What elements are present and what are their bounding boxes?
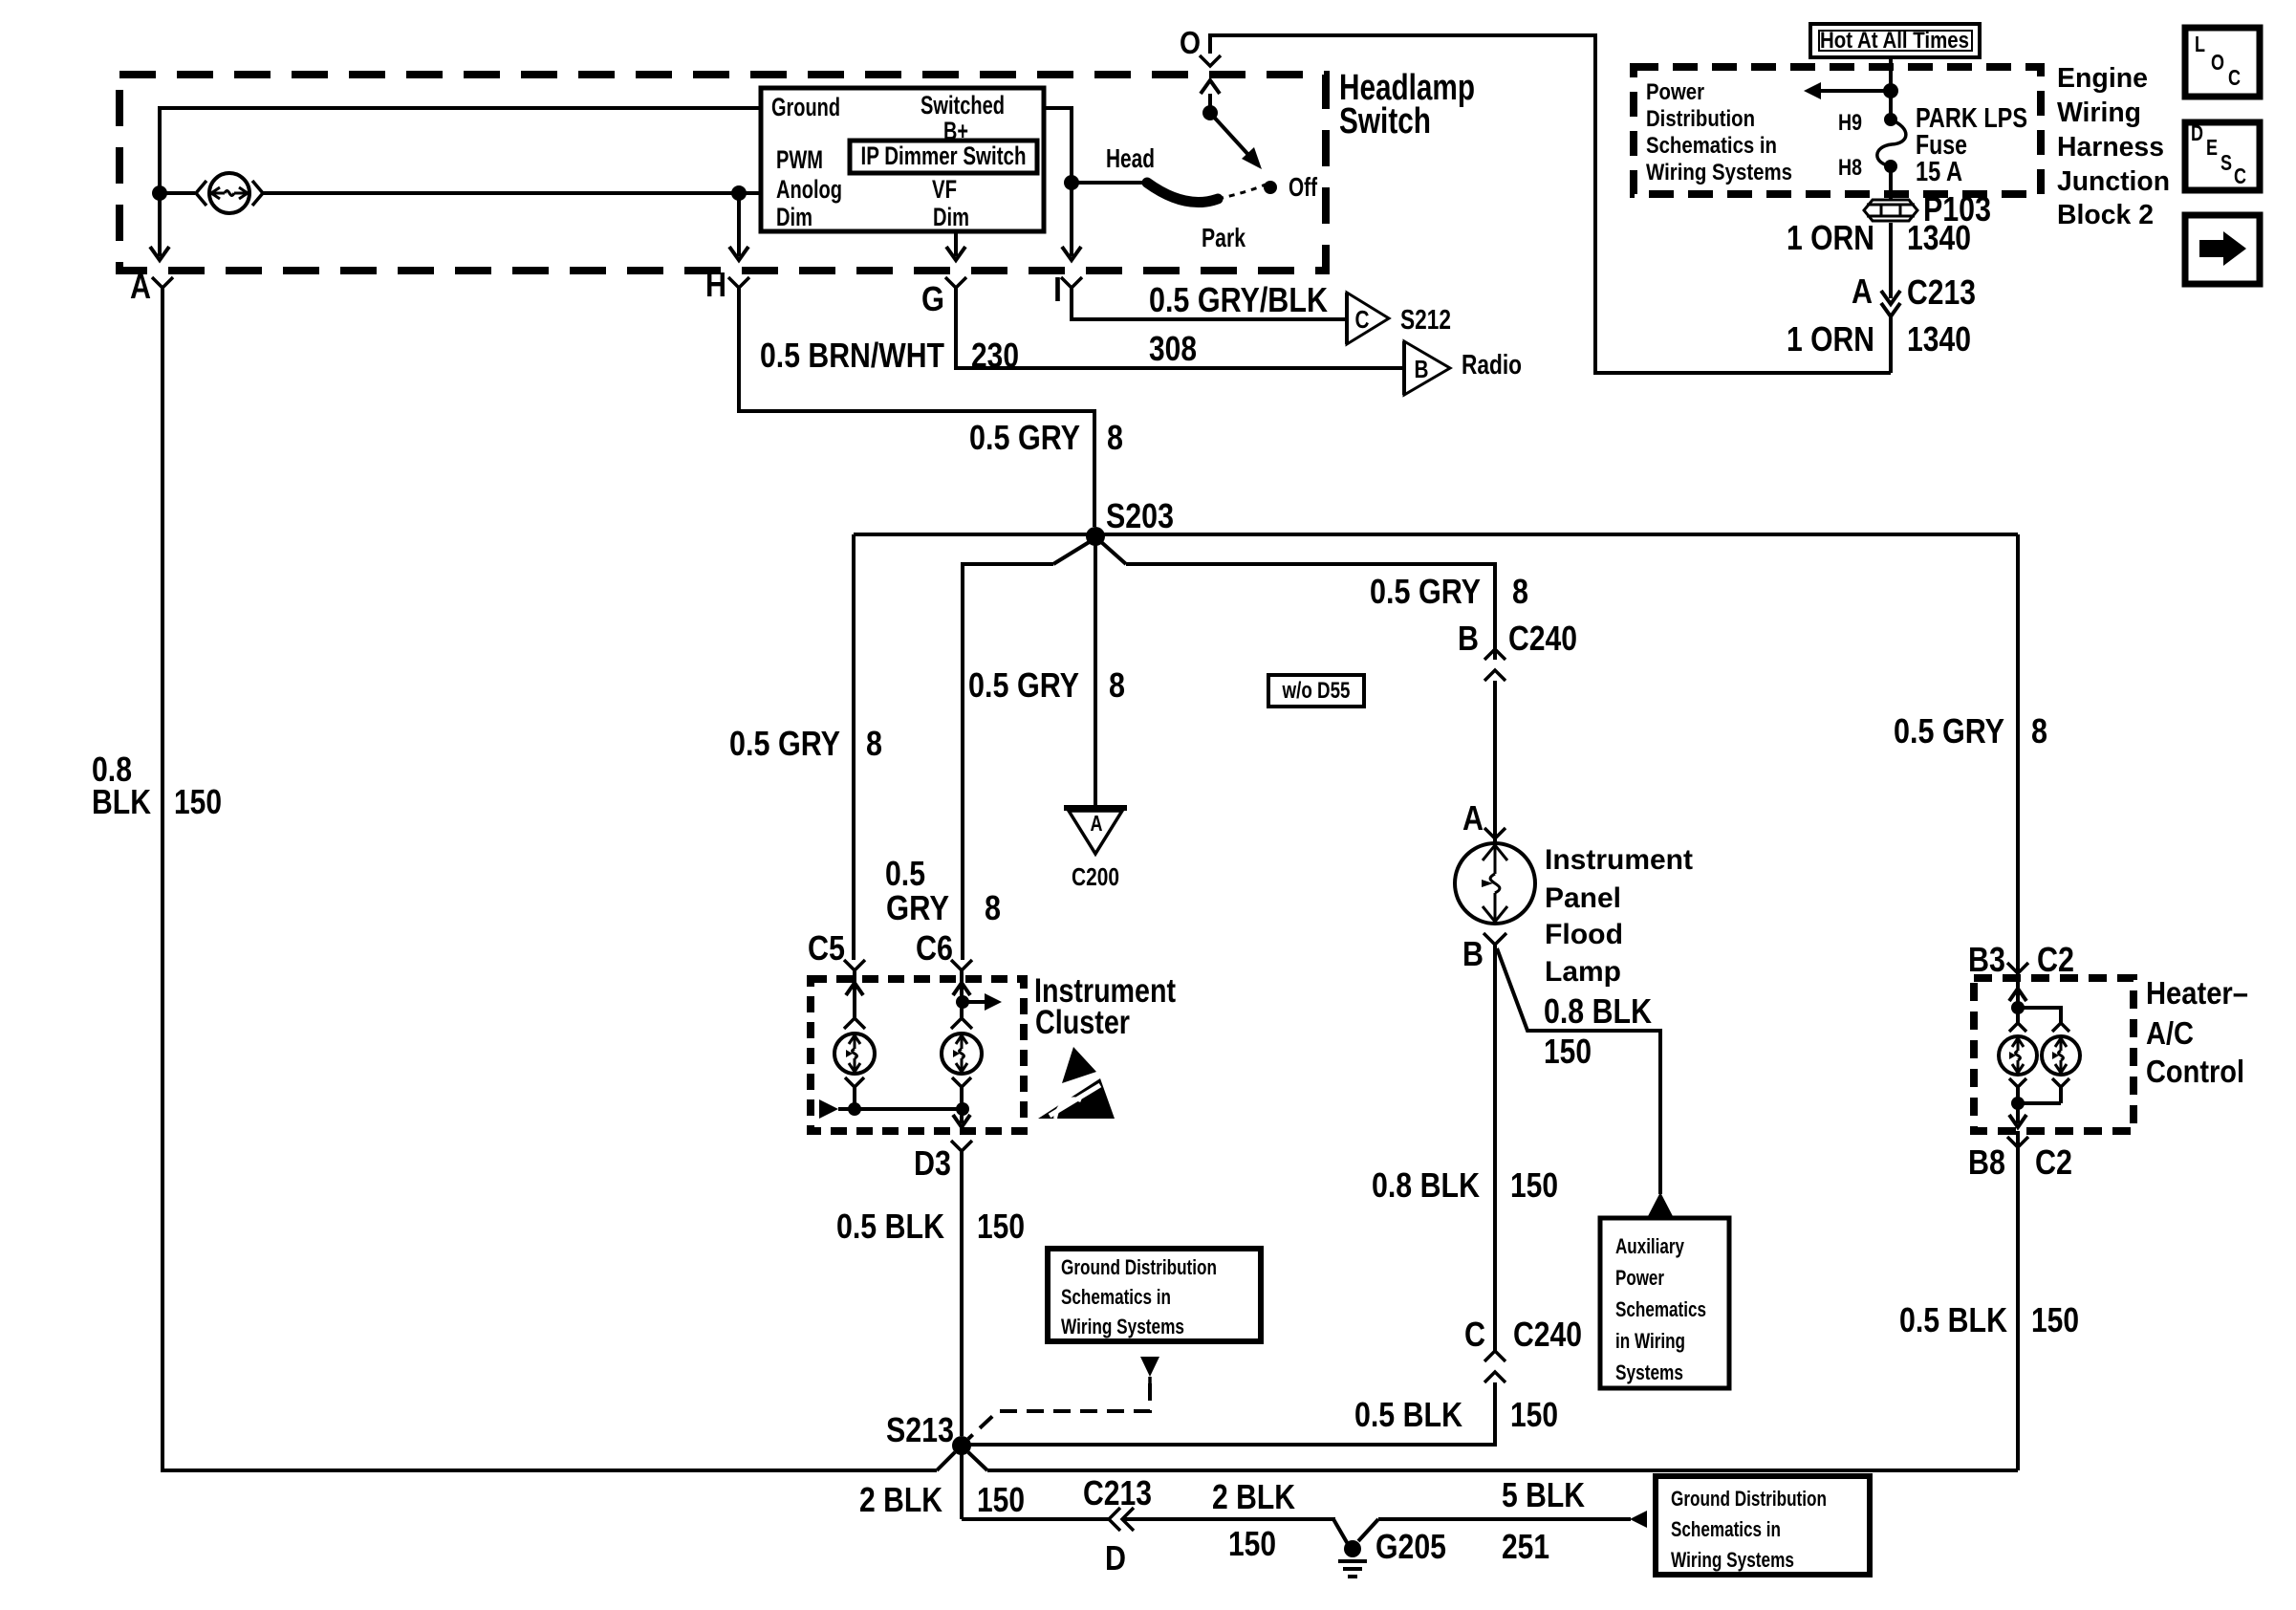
- svg-text:0.8 BLK: 0.8 BLK: [1544, 991, 1652, 1031]
- connector chevron O: [1200, 55, 1221, 66]
- svg-text:IP Dimmer Switch: IP Dimmer Switch: [861, 141, 1027, 170]
- svg-text:A/C: A/C: [2146, 1015, 2194, 1051]
- svg-text:C213: C213: [1083, 1473, 1152, 1512]
- wire below heater right lamp: [2018, 1101, 2061, 1105]
- wire to dimmer lamp left: [160, 191, 195, 195]
- node dot bus left: [848, 1102, 861, 1116]
- ground distribution schematics box (middle): [1048, 1249, 1261, 1341]
- wire border to pivot: [1208, 94, 1212, 113]
- wire heater branch right: [2018, 1008, 2061, 1023]
- svg-text:Radio: Radio: [1462, 350, 1522, 381]
- svg-text:I: I: [1053, 270, 1062, 309]
- svg-text:150: 150: [174, 782, 222, 821]
- DESC box: [2185, 122, 2260, 190]
- svg-text:Dim: Dim: [776, 203, 812, 231]
- wire C5 vertical: [852, 534, 856, 960]
- wire flood B down to C C240: [1493, 945, 1497, 1351]
- svg-text:230: 230: [971, 336, 1019, 375]
- svg-text:Ground Distribution: Ground Distribution: [1671, 1487, 1827, 1511]
- wire diag to G205: [1333, 1519, 1348, 1544]
- wire below heater left lamp: [2016, 1103, 2020, 1123]
- wire G205 diag up: [1358, 1519, 1378, 1541]
- arrow up inside border (O): [1201, 80, 1220, 94]
- connector bracket above left lamp: [844, 1018, 865, 1029]
- svg-text:A: A: [1462, 798, 1484, 838]
- svg-text:Junction: Junction: [2057, 166, 2170, 197]
- svg-text:308: 308: [1149, 329, 1197, 368]
- svg-text:8: 8: [866, 724, 882, 763]
- node dot C6 branch: [956, 995, 969, 1009]
- svg-text:Control: Control: [2146, 1054, 2244, 1089]
- connector bracket right of lamp: [252, 181, 263, 206]
- connector A chevron flood: [1484, 828, 1505, 838]
- ground G205 dot: [1344, 1540, 1361, 1557]
- svg-text:Schematics: Schematics: [1615, 1297, 1706, 1321]
- arrow up inside box (C5): [846, 983, 863, 995]
- wire S213 bottom to C213: [962, 1517, 1109, 1521]
- svg-text:150: 150: [977, 1480, 1025, 1519]
- svg-text:Power: Power: [1646, 79, 1704, 105]
- svg-text:C: C: [1355, 305, 1370, 334]
- wire S213 right to heater: [987, 1469, 2018, 1472]
- wire C240 C to S213: [969, 1382, 1495, 1445]
- svg-text:150: 150: [1228, 1524, 1276, 1563]
- svg-text:L: L: [2195, 32, 2205, 56]
- svg-text:15 A: 15 A: [1916, 157, 1962, 187]
- svg-text:0.5 BRN/WHT: 0.5 BRN/WHT: [760, 336, 944, 375]
- wire C213 down to corner: [1889, 315, 1893, 373]
- connector bracket below right lamp: [952, 1077, 971, 1087]
- svg-text:Systems: Systems: [1615, 1360, 1683, 1384]
- svg-text:150: 150: [1544, 1032, 1592, 1071]
- switch dashed arc to Off: [1218, 185, 1266, 199]
- node dot bus right: [956, 1102, 969, 1116]
- wire flood diagonal branch: [1497, 948, 1660, 1194]
- svg-text:Cluster: Cluster: [1035, 1004, 1130, 1041]
- svg-text:C6: C6: [916, 928, 953, 968]
- ground distribution schematics box (bottom right): [1656, 1476, 1870, 1575]
- svg-text:0.5 BLK: 0.5 BLK: [836, 1207, 944, 1246]
- svg-text:H8: H8: [1838, 155, 1862, 181]
- node dot on switched wire: [1064, 175, 1079, 190]
- wire H branch vertical: [737, 193, 741, 256]
- node dot heater top: [2011, 1001, 2025, 1014]
- svg-text:Dim: Dim: [933, 203, 969, 231]
- cluster internal bus: [838, 1107, 963, 1111]
- svg-text:8: 8: [1109, 665, 1125, 705]
- svg-text:8: 8: [1512, 572, 1528, 611]
- svg-text:C213: C213: [1907, 272, 1976, 312]
- svg-text:0.8 BLK: 0.8 BLK: [1372, 1165, 1480, 1205]
- svg-text:1 ORN: 1 ORN: [1787, 319, 1874, 359]
- svg-text:0.5 GRY/BLK: 0.5 GRY/BLK: [1149, 280, 1328, 319]
- wire I to S212: [1072, 288, 1347, 319]
- svg-text:H: H: [705, 265, 726, 304]
- connector C240 C chevrons: [1484, 1351, 1505, 1361]
- svg-text:C5: C5: [808, 928, 845, 968]
- wire O pin stub: [1210, 35, 1595, 54]
- fuse PARK LPS: [1884, 113, 1897, 126]
- svg-text:Ground: Ground: [771, 93, 840, 121]
- svg-text:Head: Head: [1106, 143, 1155, 173]
- switch pivot dot: [1202, 105, 1218, 120]
- lamp instrument panel flood: [1455, 843, 1535, 924]
- arrow ref box: [2185, 215, 2260, 284]
- svg-text:Ground Distribution: Ground Distribution: [1061, 1255, 1217, 1279]
- wire S213 down: [960, 1453, 964, 1519]
- svg-text:0.5 GRY: 0.5 GRY: [1894, 711, 2004, 751]
- svg-text:S203: S203: [1106, 496, 1174, 535]
- connector B3 chevron: [2007, 963, 2028, 973]
- connector bracket above right lamp: [951, 1018, 972, 1029]
- wire H to S203: [739, 288, 1094, 527]
- svg-text:150: 150: [977, 1207, 1025, 1246]
- svg-text:0.5 GRY: 0.5 GRY: [1370, 572, 1481, 611]
- wire into heater box: [2016, 973, 2020, 1023]
- wire P103 to C213: [1889, 223, 1893, 289]
- svg-text:Wiring: Wiring: [2057, 98, 2141, 128]
- connector bracket above heater right lamp: [2052, 1023, 2069, 1032]
- lamp heater left: [1999, 1036, 2037, 1075]
- switch thick wiper arc: [1147, 183, 1218, 203]
- svg-text:B: B: [1462, 934, 1484, 973]
- svg-text:Wiring Systems: Wiring Systems: [1646, 160, 1792, 185]
- connector B8 chevron: [2007, 1137, 2028, 1147]
- svg-text:B: B: [1458, 619, 1479, 658]
- svg-text:C: C: [1464, 1315, 1485, 1354]
- svg-text:2 BLK: 2 BLK: [859, 1480, 942, 1519]
- headlamp switch dashed box: [119, 75, 1326, 271]
- node junction dot H branch: [731, 185, 747, 201]
- svg-text:S: S: [2220, 150, 2232, 175]
- connector A chevron: [152, 277, 173, 288]
- arrow down at heater border: [2009, 1115, 2026, 1127]
- svg-text:0.5 BLK: 0.5 BLK: [1354, 1395, 1462, 1434]
- svg-text:8: 8: [2031, 711, 2047, 751]
- wire S213 left to A corner: [162, 1469, 937, 1472]
- wire S203 left: [854, 533, 1095, 536]
- svg-text:H9: H9: [1838, 110, 1862, 136]
- svg-text:C2: C2: [2037, 940, 2074, 979]
- triangle connector C: [1345, 293, 1349, 344]
- connector C213 chevrons (bottom): [1109, 1508, 1120, 1531]
- svg-text:w/o D55: w/o D55: [1282, 678, 1351, 704]
- wire S203 diag right: [1100, 541, 1126, 564]
- wire switched pin: [1044, 108, 1072, 256]
- svg-text:G205: G205: [1375, 1527, 1446, 1566]
- LOC box: [2185, 28, 2260, 97]
- wire C6 into box: [960, 970, 964, 1018]
- svg-text:Wiring Systems: Wiring Systems: [1061, 1315, 1184, 1338]
- svg-text:0.5 GRY: 0.5 GRY: [729, 724, 840, 763]
- wire S203 down to C200: [1094, 536, 1097, 808]
- power distribution dashed box: [1634, 67, 2041, 194]
- svg-text:A: A: [1852, 272, 1873, 311]
- svg-text:Schematics in: Schematics in: [1646, 133, 1777, 159]
- node junction dot on vertical: [152, 185, 167, 201]
- svg-text:C2: C2: [2035, 1142, 2072, 1182]
- wire C213 to G205: [1122, 1517, 1335, 1521]
- svg-text:E: E: [2206, 135, 2218, 160]
- ref arrow from middle box: [1140, 1357, 1159, 1377]
- bus arrowhead: [819, 1099, 838, 1119]
- svg-text:C240: C240: [1508, 619, 1577, 658]
- wire inner vertical: [158, 106, 162, 256]
- arrow up inside box (C6): [953, 983, 970, 995]
- svg-text:A: A: [1091, 811, 1103, 836]
- svg-text:VF: VF: [932, 175, 957, 204]
- svg-text:PWM: PWM: [776, 145, 823, 174]
- IP dimmer switch module box: [761, 88, 1044, 231]
- w/o D55 box: [1268, 675, 1364, 707]
- svg-text:O: O: [1180, 25, 1201, 60]
- connector I chevron: [1061, 277, 1082, 288]
- arrow down at border (inner vertical): [150, 247, 169, 260]
- wire heater vertical up: [2016, 1131, 2020, 1470]
- wire D3 to S213: [960, 1151, 964, 1436]
- wire S213 diag left: [937, 1452, 955, 1470]
- wire C6 branch arrow: [963, 1000, 986, 1004]
- svg-text:Panel: Panel: [1545, 882, 1621, 914]
- splice S213 dot: [952, 1436, 971, 1455]
- svg-text:8: 8: [985, 888, 1001, 927]
- svg-text:Schematics in: Schematics in: [1671, 1517, 1781, 1541]
- wire C240 to flood lamp: [1493, 681, 1497, 845]
- svg-text:1340: 1340: [1907, 218, 1971, 257]
- svg-text:B: B: [1415, 355, 1429, 383]
- ref arrow to aux power box: [1647, 1192, 1674, 1218]
- svg-text:Engine: Engine: [2057, 63, 2148, 94]
- svg-text:Lamp: Lamp: [1545, 956, 1621, 988]
- svg-text:Anolog: Anolog: [776, 175, 842, 204]
- wire ground pin: [160, 106, 761, 110]
- connector bracket left of lamp: [196, 181, 206, 206]
- arrow down at cluster border: [953, 1115, 970, 1127]
- svg-text:Auxiliary: Auxiliary: [1615, 1234, 1685, 1258]
- svg-text:Heater–: Heater–: [2146, 975, 2248, 1011]
- svg-text:Distribution: Distribution: [1646, 106, 1755, 132]
- svg-text:D3: D3: [914, 1143, 951, 1183]
- heater A/C dashed box: [1974, 978, 2134, 1131]
- connector C213 inline: [1889, 289, 1893, 298]
- wire S203 diag left: [1053, 541, 1091, 564]
- lamp heater right: [2042, 1036, 2080, 1075]
- connector C5 chevron: [844, 960, 865, 970]
- connector C6 chevron: [951, 960, 972, 970]
- svg-text:C200: C200: [1072, 862, 1119, 891]
- ref arrow to ground box: [1630, 1511, 1647, 1528]
- svg-text:B8: B8: [1968, 1142, 2005, 1182]
- arrow down at border (VF): [946, 247, 965, 260]
- node dot heater bottom: [2011, 1097, 2025, 1110]
- svg-text:0.5 GRY: 0.5 GRY: [968, 665, 1079, 705]
- connector bracket below left lamp: [845, 1077, 864, 1087]
- switch wiper arrowhead: [1242, 147, 1262, 169]
- svg-text:150: 150: [1510, 1395, 1558, 1434]
- switch Off contact dot: [1264, 181, 1277, 194]
- svg-text:1340: 1340: [1907, 319, 1971, 359]
- svg-text:D: D: [2191, 120, 2203, 145]
- svg-text:Power: Power: [1615, 1266, 1664, 1290]
- svg-text:S212: S212: [1400, 305, 1451, 336]
- node dot power branch: [1883, 83, 1898, 98]
- svg-text:C: C: [2234, 163, 2246, 188]
- arrowhead power branch: [1804, 82, 1821, 99]
- svg-text:2 BLK: 2 BLK: [1212, 1477, 1295, 1516]
- connector D3 chevron: [951, 1141, 972, 1151]
- svg-text:C: C: [2228, 65, 2241, 90]
- wire fuse to P103: [1889, 166, 1893, 199]
- wire to Head contact: [1072, 181, 1146, 185]
- svg-text:5 BLK: 5 BLK: [1502, 1475, 1585, 1514]
- lamp panel dimmer: [209, 173, 249, 213]
- svg-text:Off: Off: [1289, 172, 1317, 202]
- instrument cluster dashed box: [811, 979, 1024, 1131]
- svg-text:Block 2: Block 2: [2057, 200, 2154, 230]
- switch wiper arrow line: [1210, 113, 1250, 157]
- svg-text:in Wiring: in Wiring: [1615, 1329, 1685, 1353]
- wire hot to fuse: [1889, 57, 1893, 120]
- wire power to O pin: [1208, 35, 1891, 373]
- connector B bracket flood: [1484, 933, 1506, 945]
- svg-text:A: A: [130, 267, 151, 306]
- wire heater vertical down: [2016, 534, 2020, 973]
- wire power branch: [1819, 89, 1891, 93]
- arrow up inside heater box: [2009, 989, 2026, 1001]
- wire C5 into box: [853, 970, 856, 1018]
- wire S203 branch to C240 B: [1126, 564, 1495, 660]
- ground G205 symbol: [1338, 1559, 1367, 1563]
- wire G205 to ref arrow: [1378, 1517, 1631, 1521]
- lamp cluster right: [942, 1033, 982, 1074]
- svg-text:G: G: [921, 279, 944, 318]
- triangle connector B: [1402, 341, 1406, 395]
- arrow down at border (switched): [1062, 247, 1081, 260]
- svg-text:S213: S213: [886, 1410, 954, 1449]
- grommet P103: [1864, 200, 1917, 221]
- svg-text:Schematics in: Schematics in: [1061, 1285, 1171, 1309]
- wire A vertical: [161, 288, 164, 1472]
- connector bracket above heater left lamp: [2009, 1023, 2026, 1032]
- ground ref triangle C200: [1064, 805, 1127, 811]
- svg-text:C240: C240: [1513, 1315, 1582, 1354]
- wire right lamp to border: [960, 1109, 964, 1123]
- wire S203 branch to C6: [963, 564, 1053, 960]
- wire S213 diag right: [968, 1452, 987, 1470]
- wire VF pin stub: [954, 231, 958, 256]
- svg-text:BLK: BLK: [92, 782, 151, 821]
- lamp cluster left: [834, 1033, 875, 1074]
- svg-text:Wiring Systems: Wiring Systems: [1671, 1548, 1794, 1572]
- connector bracket below heater right lamp: [2052, 1078, 2069, 1087]
- arrow down at border (H branch): [729, 247, 748, 260]
- wire S203 right: [1095, 533, 2018, 536]
- connector C240 B chevrons: [1484, 649, 1505, 660]
- hot at all times box: [1810, 24, 1980, 57]
- svg-text:8: 8: [1107, 418, 1123, 457]
- IP Dimmer Switch label box: [850, 141, 1037, 173]
- connector H chevron: [728, 277, 749, 288]
- svg-text:1 ORN: 1 ORN: [1787, 218, 1874, 257]
- connector bracket below heater left lamp: [2009, 1078, 2026, 1087]
- wire lamp to Anolog pin: [261, 191, 761, 195]
- svg-text:0.5: 0.5: [885, 854, 925, 893]
- svg-text:150: 150: [1510, 1165, 1558, 1205]
- svg-text:Switched: Switched: [921, 91, 1005, 120]
- ESD symbol: [1062, 1047, 1096, 1083]
- svg-text:0.5 GRY: 0.5 GRY: [969, 418, 1080, 457]
- svg-text:Flood: Flood: [1545, 919, 1623, 950]
- svg-text:Harness: Harness: [2057, 132, 2164, 163]
- svg-text:Instrument: Instrument: [1545, 844, 1693, 876]
- svg-text:Hot At All Times: Hot At All Times: [1820, 28, 1969, 54]
- svg-text:D: D: [1105, 1538, 1126, 1577]
- svg-text:0.5 BLK: 0.5 BLK: [1899, 1300, 2007, 1339]
- svg-text:Switch: Switch: [1339, 101, 1431, 141]
- svg-text:GRY: GRY: [886, 888, 949, 927]
- svg-text:Park: Park: [1202, 223, 1245, 252]
- svg-text:150: 150: [2031, 1300, 2079, 1339]
- svg-text:251: 251: [1502, 1527, 1549, 1566]
- auxiliary power schematics box: [1600, 1218, 1729, 1388]
- connector G chevron: [945, 277, 966, 288]
- svg-text:O: O: [2211, 50, 2224, 75]
- wire G to Radio: [956, 288, 1404, 368]
- splice S203 dot: [1086, 527, 1105, 546]
- dashed ref wire to S213: [968, 1383, 1150, 1439]
- svg-text:B3: B3: [1968, 940, 2005, 979]
